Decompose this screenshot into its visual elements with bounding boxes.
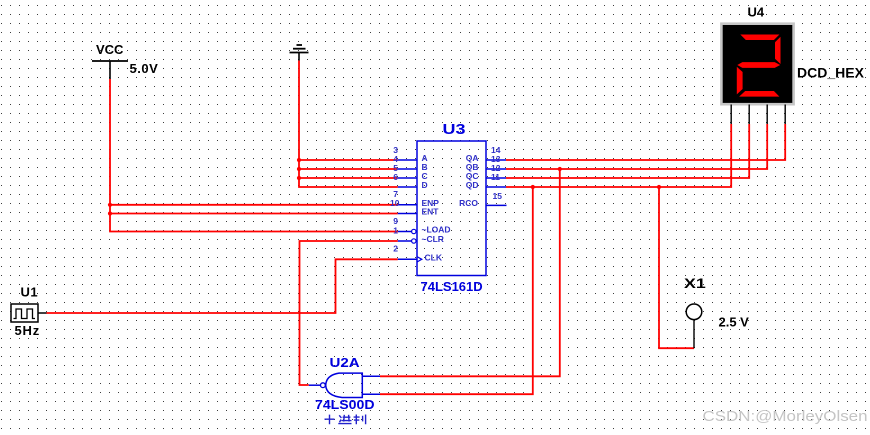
probe X1: [684, 277, 749, 349]
svg-text:VCC: VCC: [96, 42, 124, 57]
wire ENT from VCC: [110, 213, 398, 215]
svg-text:~LOAD: ~LOAD: [422, 225, 451, 235]
U3 pin stub QC: [486, 177, 506, 179]
svg-text:D: D: [422, 180, 428, 190]
segment A top: [740, 35, 779, 41]
wire U1 to CLK: [47, 259, 398, 313]
svg-text:74LS161D: 74LS161D: [421, 279, 483, 294]
ground: [290, 45, 309, 61]
U3 pin stub RCO: [486, 204, 507, 206]
junction QB-NAND: [558, 167, 562, 171]
svg-text:QD: QD: [466, 180, 479, 190]
U3 pin stub B: [398, 168, 417, 170]
display pin 3: [766, 105, 768, 125]
wire ground vertical: [299, 61, 398, 188]
junction VCC-ENP: [108, 203, 112, 207]
wire A row: [299, 159, 398, 161]
svg-text:U3: U3: [443, 120, 466, 137]
svg-text:~CLR: ~CLR: [422, 234, 444, 244]
svg-text:X1: X1: [684, 277, 706, 292]
svg-text:CLK: CLK: [425, 253, 443, 263]
wire B row: [299, 168, 398, 170]
svg-text:ENT: ENT: [422, 207, 440, 217]
wire QA row: [506, 124, 785, 160]
svg-text:U2A: U2A: [330, 355, 360, 370]
wire QB to NAND input A: [380, 169, 560, 376]
U3 pin stub C: [398, 177, 417, 179]
U3 pin stub D: [398, 186, 417, 188]
U3 pin stub QA: [486, 159, 506, 161]
U3 pin stub CLK with wedge: [398, 257, 422, 262]
svg-text:74LS00D: 74LS00D: [315, 397, 375, 411]
svg-text:U4: U4: [748, 5, 765, 20]
junction QD-NAND: [531, 185, 535, 189]
svg-text:2: 2: [393, 244, 398, 254]
wire QC row: [506, 124, 749, 178]
U3 pin names: [422, 153, 479, 263]
svg-text:U1: U1: [21, 285, 39, 300]
wire QD row: [506, 124, 731, 187]
svg-text:CSDN:@MorleyOlsen: CSDN:@MorleyOlsen: [703, 409, 868, 425]
wire CLR to NAND output: [300, 241, 398, 385]
counter U3: [417, 120, 486, 294]
svg-text:6: 6: [393, 172, 398, 182]
segment E bottom-left: [737, 67, 743, 95]
U3 pin stub ~LOAD with bubble: [398, 229, 416, 233]
U3 pin numbers: [390, 145, 502, 254]
U3 pin stub ENT: [398, 213, 417, 215]
segment G middle: [737, 62, 780, 68]
wire QD to probe X1: [659, 187, 694, 348]
junction gnd-B: [297, 167, 301, 171]
svg-text:DCD_HEX: DCD_HEX: [797, 65, 865, 81]
U3 pin stub QD: [486, 186, 506, 188]
wire VCC vertical: [110, 79, 398, 232]
svg-text:10: 10: [390, 198, 400, 208]
junction gnd-C: [297, 176, 301, 180]
seven segment display U4: [721, 5, 864, 125]
wire C row: [299, 177, 398, 179]
svg-text:5Hz: 5Hz: [15, 323, 41, 338]
display pin 1: [730, 105, 732, 125]
clock source U1: [11, 285, 47, 339]
power VCC: [92, 42, 158, 79]
U3 pin stub A: [398, 159, 417, 161]
junction VCC-ENT: [108, 211, 112, 215]
wire QB row: [506, 124, 767, 169]
svg-text:11: 11: [491, 172, 500, 182]
svg-text:5.0V: 5.0V: [130, 61, 159, 76]
segment D bottom: [739, 91, 779, 97]
wire ENP from VCC: [110, 204, 398, 206]
segment B top-right: [775, 37, 781, 64]
display pin 4: [784, 105, 786, 125]
svg-text:1: 1: [393, 226, 398, 236]
junction gnd-A: [297, 158, 301, 162]
U3 pin stub QB: [486, 168, 506, 170]
junction QD-X1: [657, 185, 661, 189]
U3 pin stub ENP: [398, 204, 417, 206]
wire QD to NAND input B: [380, 187, 533, 394]
NAND gate U2A: [309, 355, 380, 412]
svg-text:15: 15: [493, 191, 503, 201]
label 十进制 (decimal) drawn strokes: [325, 415, 366, 425]
svg-text:9: 9: [393, 216, 398, 226]
U3 pin stub ~CLR with bubble: [398, 239, 416, 243]
svg-text:2.5 V: 2.5 V: [719, 315, 750, 330]
svg-text:RCO: RCO: [459, 198, 478, 208]
display pin 2: [748, 105, 750, 125]
